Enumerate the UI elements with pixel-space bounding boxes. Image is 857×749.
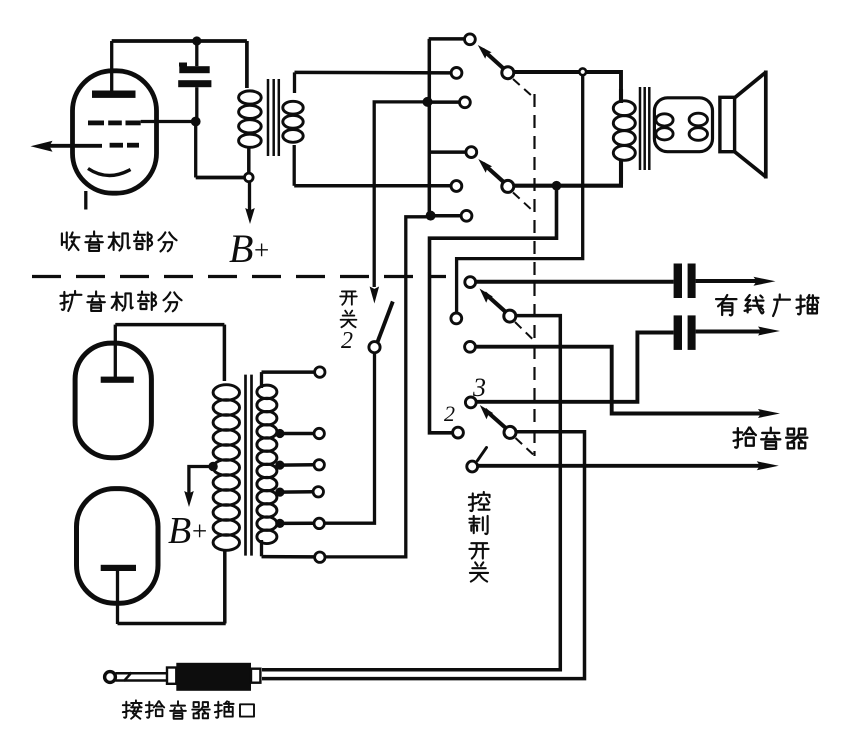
- switch S1b rotor: [478, 159, 514, 192]
- wire V3 bottom to T2 primary: [118, 622, 226, 626]
- switch 2 pivot circle: [369, 342, 380, 353]
- pickup plug ring: [105, 672, 116, 683]
- wire contact G to capacitor C1: [476, 280, 674, 284]
- svg-text:B: B: [168, 510, 191, 552]
- T2 tap junction dots: [275, 429, 284, 528]
- pickup plug body: [176, 663, 251, 691]
- junction dot contact F branch: [426, 211, 436, 221]
- dashed stub rotor 1: [513, 79, 533, 97]
- wire junction to contact 2 of control switch: [430, 186, 557, 433]
- junction dot at bus/contact C: [423, 97, 433, 107]
- label: control switch (kong zhi kai guan) vertical: [469, 492, 490, 582]
- wire contact 1 to output arrow: [478, 461, 779, 470]
- top wire V1 plate to T1 primary: [112, 39, 247, 43]
- wire node down to B+ terminal: [196, 122, 245, 178]
- pickup plug collar left: [167, 668, 176, 684]
- control switch contact H: [451, 313, 462, 324]
- heater/output arrow (left): [31, 141, 103, 152]
- label: radio section (shou yin ji bu fen): [62, 231, 177, 251]
- tube V3 envelope: [77, 489, 159, 604]
- tube V2 electrode bar: [101, 377, 134, 383]
- control switch contact 2: [453, 427, 464, 438]
- label: amplifier section (kuo yin ji bu fen): [60, 291, 181, 311]
- wire contact 3 to capacitor C2: [476, 333, 673, 402]
- T3 secondary coil bumps: [656, 113, 708, 140]
- wire T2 secondary bottom to terminal: [262, 555, 315, 559]
- wire contact I to pickup arrow: [475, 347, 780, 418]
- T2 terminal circles: [313, 367, 325, 563]
- label 3: [472, 373, 486, 402]
- tube V3 lead wire: [116, 571, 119, 624]
- grid lead wire to capacitor node: [141, 120, 196, 123]
- dashed stub rotor 2: [513, 193, 533, 212]
- speaker driver: [720, 97, 735, 151]
- control switch contact G: [465, 277, 476, 288]
- T2 tap wires: [280, 434, 314, 524]
- pickup plug collar right: [251, 669, 260, 683]
- switch S1a contact A: [465, 34, 476, 45]
- wire contact C to bus junction: [429, 100, 459, 104]
- junction at grid/capacitor node: [191, 117, 201, 127]
- switch S1a contact B: [451, 68, 462, 79]
- dashed stub rotor 3: [515, 322, 535, 341]
- wire rotor S1a to T3 primary top: [514, 72, 621, 89]
- B+ tap wire and arrow (amplifier): [184, 467, 213, 508]
- capacitor C2 plates: [674, 315, 696, 350]
- speaker cone: [735, 71, 766, 179]
- control switch rotor R4: [480, 405, 516, 438]
- tube V1 grid dashes row 2: [110, 143, 139, 148]
- transformer T2 primary winding: [213, 325, 239, 624]
- transformer T1 secondary winding: [283, 72, 303, 185]
- wire contact A to vertical bus: [429, 37, 465, 41]
- switch S1b contact F: [461, 210, 472, 221]
- control switch rotor R3: [480, 289, 516, 323]
- tube V2 lead wire: [114, 325, 117, 377]
- wire contact F to junction: [431, 214, 461, 218]
- wire V2 top to T2 primary: [115, 323, 224, 327]
- tube V1 cathode stub wire: [84, 191, 87, 210]
- wire T1 secondary top to contact B: [295, 71, 452, 75]
- switch 2 blade: [378, 302, 393, 343]
- control switch contact 1: [467, 461, 478, 472]
- section divider dashed line: [32, 275, 446, 278]
- capacitor C0 plates: [178, 63, 211, 88]
- B+ arrow (radio): [245, 182, 255, 224]
- switch S1b contact D: [466, 147, 477, 158]
- wire contact D to bus: [429, 150, 466, 154]
- transformer T2 secondary winding: [257, 372, 277, 556]
- tube V3 electrode bar: [101, 565, 136, 571]
- tube V1 grid dashes row 1: [88, 121, 141, 126]
- vertical bus wire (switch bank): [428, 39, 432, 216]
- B+ terminal circle (radio): [245, 173, 254, 182]
- wire C2 to broadcast arrow 2: [696, 327, 780, 336]
- label B+ (amplifier): [168, 510, 207, 552]
- wire terminal 5 to switch 2: [324, 353, 374, 523]
- dashed stub rotor 4: [516, 438, 538, 458]
- junction circle rotor wire / contact H riser: [579, 68, 586, 75]
- switch S1a contact C: [460, 97, 471, 108]
- wire rotor R4 to pickup plug (lower): [262, 432, 585, 679]
- svg-text:+: +: [254, 235, 269, 265]
- wire junction to switch 2 drop: [374, 102, 427, 287]
- control switch contact I: [465, 341, 476, 352]
- label 1: [478, 448, 487, 461]
- svg-text:B: B: [229, 226, 253, 271]
- ganged-switch dashed link (vertical): [533, 94, 535, 456]
- transformer T1 core: [268, 79, 279, 156]
- svg-text:2: 2: [444, 401, 455, 426]
- label: switch 2 (kai guan 2) vertical: [340, 291, 357, 354]
- wire C1 to broadcast arrow: [696, 277, 776, 286]
- wire rotor R3 to pickup plug (upper): [262, 316, 560, 670]
- transformer T3 core: [640, 87, 649, 170]
- svg-text:2: 2: [341, 328, 353, 354]
- tube V1 plate bar: [92, 91, 136, 98]
- tube V1 plate lead wire: [110, 41, 113, 92]
- capacitor C0 leads: [195, 41, 198, 122]
- B+ tap junction dot on T2 primary: [208, 462, 217, 471]
- svg-text:+: +: [192, 516, 207, 546]
- transformer T3 secondary loop: [654, 98, 712, 152]
- wire contact H up to rotor-1 node: [457, 75, 583, 313]
- arrowhead to switch 2 blade: [370, 287, 380, 304]
- wire T1 secondary bottom to contact E: [294, 184, 451, 188]
- tube V2 envelope: [75, 343, 151, 458]
- label 2: [444, 401, 455, 426]
- control switch contact 3: [465, 397, 476, 408]
- label: pickup (shi yin qi): [734, 428, 808, 449]
- capacitor C1 plates: [674, 264, 696, 299]
- tube V1 cathode arc: [88, 169, 131, 176]
- label: pickup jack (jie shi yin qi cha kou): [123, 700, 254, 718]
- wire rotor S1b to T3 primary bottom: [514, 184, 623, 188]
- transformer T2 core: [246, 375, 252, 556]
- switch S1a rotor: [478, 45, 514, 79]
- pickup plug tip shaft: [116, 673, 168, 682]
- switch S1b contact E: [451, 181, 462, 192]
- label: wired broadcast (you xian guang bo): [716, 295, 818, 316]
- transformer T1 primary winding: [239, 41, 262, 173]
- wire junction F down to T2 secondary bottom terminal: [325, 217, 430, 557]
- wire T2 secondary top to terminal: [262, 370, 315, 374]
- junction at top wire / capacitor: [192, 36, 201, 45]
- transformer T3 primary winding: [613, 89, 635, 184]
- svg-text:3: 3: [472, 373, 486, 402]
- label B+ (radio): [229, 226, 269, 271]
- junction dot on rotor S1b wire: [552, 181, 562, 191]
- tube V1 (radio) envelope: [73, 71, 157, 193]
